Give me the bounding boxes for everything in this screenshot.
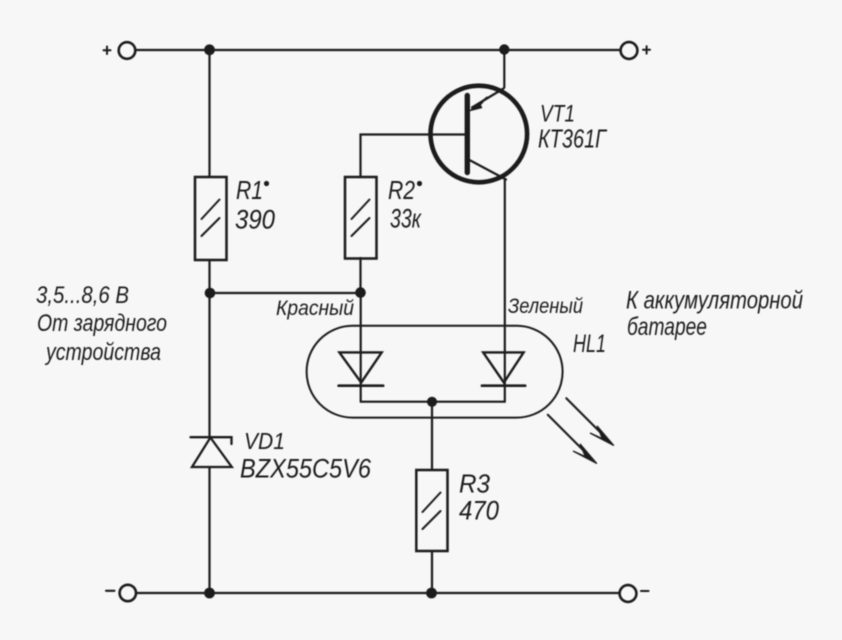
resistor R2 <box>345 177 377 259</box>
svg-text:устройства: устройства <box>44 339 161 366</box>
terminal + left <box>119 42 136 59</box>
plus sign right <box>643 46 650 53</box>
transistor VT1 <box>431 86 528 183</box>
minus sign right <box>641 590 649 592</box>
wire R2 top to base <box>361 135 467 178</box>
plus sign left <box>104 47 111 55</box>
svg-text:3,5...8,6 В: 3,5...8,6 В <box>36 282 129 309</box>
zener diode VD1 <box>191 437 232 467</box>
svg-text:BZX55C5V6: BZX55C5V6 <box>240 454 372 484</box>
LED red <box>339 352 381 382</box>
node top-right junction <box>499 44 509 54</box>
resistor R1 <box>195 177 227 260</box>
terminal + right <box>621 42 638 59</box>
svg-text:33к: 33к <box>390 204 422 234</box>
wire cathode bus <box>361 401 504 403</box>
light arrow 1 <box>566 398 613 445</box>
LED green <box>483 352 523 382</box>
wire mid horizontal <box>210 292 361 294</box>
wire VD1 to bottom rail <box>208 467 210 593</box>
terminal - left <box>120 585 136 601</box>
svg-text:VD1: VD1 <box>244 428 285 454</box>
emitter with arrow <box>472 89 504 108</box>
light arrow 2 <box>548 415 597 464</box>
wire to R3 <box>431 402 433 470</box>
svg-text:R2: R2 <box>388 175 415 205</box>
wire R2 bottom <box>359 258 361 293</box>
wire left vertical upper <box>208 50 210 177</box>
node bottom-mid junction <box>426 588 437 599</box>
svg-text:Красный: Красный <box>276 297 354 320</box>
node cathode junction <box>427 397 437 407</box>
svg-text:HL1: HL1 <box>573 330 606 358</box>
svg-text:К аккумуляторной: К аккумуляторной <box>626 287 803 315</box>
svg-text:470: 470 <box>459 496 499 526</box>
svg-text:КТ361Г: КТ361Г <box>538 124 607 154</box>
svg-text:батарее: батарее <box>627 313 707 341</box>
wire collector down <box>504 180 506 402</box>
wire bottom rail <box>136 592 619 594</box>
resistor R3 <box>416 470 447 551</box>
svg-text:R3: R3 <box>459 469 490 499</box>
wire left vertical to VD1 <box>208 293 210 437</box>
node left mid junction <box>205 288 216 299</box>
wire top rail <box>136 49 621 51</box>
collector line <box>469 160 507 180</box>
node mid junction <box>355 287 366 298</box>
svg-text:R1: R1 <box>236 175 263 205</box>
node top-left junction <box>204 44 215 55</box>
wire red branch down <box>360 293 362 402</box>
svg-text:Зеленый: Зеленый <box>508 295 583 318</box>
wire emitter up <box>503 50 505 88</box>
svg-text:390: 390 <box>235 205 275 235</box>
minus sign left <box>106 590 115 592</box>
wire R1 bottom <box>208 260 210 293</box>
LED package outline HL1 <box>307 326 563 418</box>
wire R3 bottom <box>431 551 433 593</box>
node bottom-left junction <box>204 588 215 599</box>
svg-text:От зарядного: От зарядного <box>37 310 167 337</box>
terminal - right <box>620 585 637 602</box>
